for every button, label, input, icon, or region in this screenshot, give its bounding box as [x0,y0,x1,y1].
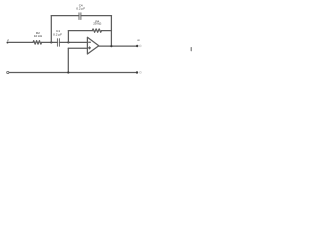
wire C1 to op-amp [59,41,87,43]
op-amp U1 [87,37,98,54]
svg-text:0.2 μF: 0.2 μF [76,7,85,11]
node B junction [67,41,69,43]
op-amp plus sign [89,47,91,49]
svg-text:20 kΩ: 20 kΩ [93,22,102,26]
svg-text:0.2 μF: 0.2 μF [53,33,62,37]
output terminal open circle [139,45,141,47]
label C4 [76,4,85,11]
ground rail [9,72,136,74]
svg-text:vi: vi [7,39,9,42]
wire input to R2 [9,41,34,43]
resistor R2 [33,41,42,45]
stray tick mark [190,48,192,51]
ground right open circle [140,72,142,74]
capacitor C1 [57,39,59,47]
wire top right segment [81,15,112,17]
wire output [99,45,137,47]
wire non-inverting input [68,47,87,49]
label R4 [93,19,102,25]
ground rail junction [67,71,69,73]
wire inner loop left [68,30,92,32]
label R2 [34,31,43,38]
node A junction [50,41,52,43]
op-amp minus sign [89,41,91,43]
svg-text:vo: vo [137,39,140,42]
output junction dot [110,45,112,47]
label C1 [53,29,62,37]
input terminal [7,42,9,44]
output terminal dot [136,45,138,47]
wire non-inverting down to rail [67,48,69,72]
wire inner loop right [102,30,112,32]
wire right feedback down [110,16,112,46]
wire top left segment [51,15,79,17]
svg-text:10 kΩ: 10 kΩ [34,34,43,38]
wire node A up [50,16,52,43]
ground left terminal [7,71,9,73]
resistor R4 [92,29,101,32]
wire R2 to C1 [42,41,58,43]
wire node B up [67,31,69,43]
capacitor C4 [79,13,81,20]
ground right terminal dot [136,71,138,73]
